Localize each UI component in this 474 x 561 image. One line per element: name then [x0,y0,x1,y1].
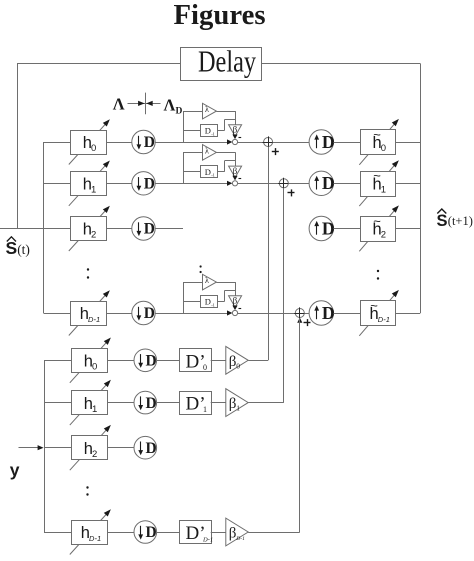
wire [155,313,227,315]
node plus sign [304,319,311,326]
wire [273,142,310,144]
svg-text:D: D [205,297,211,307]
svg-text:D: D [322,132,335,152]
svg-text:β: β [229,396,237,412]
svg-text:β: β [229,354,237,370]
downsampler D row 1 [132,172,155,195]
delay D-1 row 0 [201,125,218,137]
wire output bus (right vertical) [420,64,422,314]
wire row 0 stub (analysis bank) [44,360,71,362]
downsampler D row 2 (analysis) [134,436,157,459]
downsampler D row 0 [132,130,155,153]
node S(t) label [6,237,30,258]
svg-text:2: 2 [91,230,96,241]
multiplier node row D-1 [227,310,238,315]
svg-text:2: 2 [381,230,386,241]
wire S(t) input [0,228,70,230]
svg-text:0: 0 [92,362,97,373]
wire [396,228,421,230]
wire [108,532,135,534]
amplifier beta (quantizer) row 1 [229,166,242,178]
op-amp lambda_D-1 [203,274,217,290]
wire row 2 input stub [44,228,71,230]
wire beta into multiplier [232,176,241,181]
svg-text:D: D [144,221,155,238]
svg-text:Λ: Λ [164,95,176,114]
wire row D-1 stub (analysis bank) [44,532,71,534]
wire delay feedback left [17,64,181,229]
node dots lower-left [86,486,88,495]
svg-text:D: D [205,167,211,177]
amplifier beta (quantizer) row 0 [229,125,242,137]
wire [107,142,132,144]
filter h~1 (synthesis bank) [359,160,399,206]
wire [155,183,227,185]
svg-text:D-1: D-1 [235,536,245,542]
wire lambda output [216,111,235,125]
wire [334,313,361,315]
svg-text:S: S [437,212,448,230]
svg-text:D: D [205,126,211,136]
wire row 1 input stub [44,183,71,185]
delay D-1 row D-1 [201,296,218,308]
node plus sign [272,148,279,155]
svg-text:0: 0 [203,363,207,372]
wire [396,142,421,144]
svg-text:~: ~ [373,213,381,228]
wire beta_D-1 to adder D-1 [248,318,300,533]
node dots above lambda D-1 [200,265,202,273]
adder row 0 [263,136,274,147]
wire [211,402,226,404]
delay D'D-1 [180,521,214,545]
svg-text:D: D [176,107,183,117]
svg-text:~: ~ [373,168,381,183]
svg-text:D-1: D-1 [89,534,101,543]
wire truncated row 2 [155,228,183,230]
title Figures [174,0,266,31]
svg-text:1: 1 [236,404,240,413]
node Lambda threshold annotation [113,93,161,115]
filter h0 (synthesis state bank) [69,119,110,164]
upsampler D row 0 [309,130,335,154]
svg-text:1: 1 [91,185,96,196]
wire riser arrow into adder D-1 [297,318,302,323]
op-amp lambda_1 [203,145,217,161]
delay block [181,44,262,81]
node dots upper-left [87,268,89,278]
upsampler D row 2 [309,216,335,240]
svg-text:λ: λ [205,105,209,114]
wire [396,183,421,185]
wire tap to quantizer row 0 [183,111,203,142]
filter hD-1 (analysis bank) [70,509,111,554]
svg-text:~: ~ [373,127,381,142]
wire [396,313,421,315]
node dots upper-right [377,270,379,280]
amplifier beta_D-1 [226,518,248,546]
wire [211,532,226,534]
wire [155,142,227,144]
wire [107,183,132,185]
svg-text:2: 2 [92,449,97,460]
svg-text:-1: -1 [211,131,215,136]
filter h0 (analysis bank) [70,338,111,383]
svg-text:(t+1): (t+1) [448,214,473,228]
amplifier beta (quantizer) row D-1 [229,296,242,308]
delay D-1 row 1 [201,166,218,178]
svg-text:D: D [322,303,335,323]
filter hD-1 (synthesis state bank) [69,290,110,335]
wire beta_1 to adder 1 [248,188,284,403]
downsampler D row 0 (analysis) [134,349,157,372]
downsampler D row D-1 [132,301,155,324]
filter h2 (analysis bank) [70,425,111,470]
svg-text:β: β [233,166,238,176]
svg-text:D: D [146,353,157,370]
svg-text:~: ~ [370,298,378,313]
wire [107,228,132,230]
wire [304,313,309,315]
svg-text:0: 0 [91,143,96,154]
wire input bus (lower bank) [44,360,46,532]
wire [108,447,135,449]
svg-text:-1: -1 [211,302,215,307]
downsampler D row 1 (analysis) [134,391,157,414]
wire lambda output [216,282,235,296]
svg-text:1: 1 [381,185,386,196]
svg-text:1: 1 [92,404,97,415]
svg-text:0: 0 [381,143,386,154]
wire row 1 stub (analysis bank) [44,402,71,404]
wire [108,360,135,362]
svg-text:D: D [144,134,155,151]
filter h2 (synthesis state bank) [69,206,110,251]
svg-text:λ: λ [205,276,209,285]
filter h1 (analysis bank) [70,380,111,425]
svg-text:Figures: Figures [174,0,266,31]
wire [288,183,309,185]
filter h~0 (synthesis bank) [359,119,399,165]
node Lambda_D label [164,95,183,116]
amplifier beta_0 [226,346,248,374]
downsampler D row 2 [132,217,155,240]
wire y input [19,445,44,450]
adder row 1 [278,178,289,189]
adder row D-1 [294,307,305,318]
wire [157,402,179,404]
wire [334,183,361,185]
wire [238,313,296,315]
amplifier beta_1 [226,389,248,417]
wire [157,532,179,534]
wire delay feedback right [262,63,421,65]
upsampler D row D-1 [309,301,335,325]
upsampler D row 1 [309,171,335,195]
wire input bus (upper bank) [43,142,45,313]
wire row 0 input stub [44,142,71,144]
svg-text:D: D [146,524,157,541]
svg-text:Delay: Delay [198,44,256,79]
multiplier node row 0 [227,139,238,144]
wire beta_0 to adder 0 [248,147,268,361]
svg-text:D: D [144,305,155,322]
delay D'0 [180,349,212,373]
svg-text:D: D [322,218,335,238]
wire tap to quantizer row 1 [183,152,203,183]
multiplier node row 1 [227,181,238,186]
filter h~2 (synthesis bank) [359,205,399,251]
wire beta into multiplier [232,135,241,140]
wire [334,142,361,144]
svg-text:β: β [233,296,238,306]
filter h1 (synthesis state bank) [69,161,110,206]
svg-text:D-1: D-1 [378,315,390,324]
node y input label [10,460,20,480]
wire delay output [218,291,236,302]
svg-text:y: y [10,460,20,480]
svg-text:λ: λ [205,146,209,155]
svg-text:D: D [144,176,155,193]
filter h~D-1 (synthesis bank) [359,290,399,336]
svg-text:β: β [229,526,237,542]
wire row D-1 input stub [44,313,71,315]
svg-text:0: 0 [236,361,240,370]
wire [334,228,361,230]
svg-text:D-1: D-1 [88,315,100,324]
wire [157,360,179,362]
svg-text:D: D [322,173,335,193]
op-amp lambda_0 [203,103,217,119]
svg-text:Λ: Λ [113,94,125,113]
wire delay output [218,161,236,172]
delay D'1 [180,392,212,415]
svg-text:D: D [146,395,157,412]
svg-text:(t): (t) [17,242,30,257]
node plus sign [288,189,295,196]
wire row 2 stub (analysis bank) [44,447,71,449]
svg-text:D: D [146,440,157,457]
downsampler D row D-1 (analysis) [134,521,157,544]
svg-text:D-1: D-1 [202,537,213,544]
wire [238,142,264,144]
wire [107,313,132,315]
node S(t+1) output label [437,209,473,230]
wire [211,360,226,362]
wire beta into multiplier [232,306,241,311]
wire [108,402,135,404]
wire delay output [218,120,236,131]
svg-text:1: 1 [203,405,207,414]
wire lambda output [216,152,235,166]
svg-text:β: β [233,125,238,135]
wire tap to quantizer row D-1 [183,282,203,313]
svg-text:-1: -1 [211,173,215,178]
wire [238,183,280,185]
